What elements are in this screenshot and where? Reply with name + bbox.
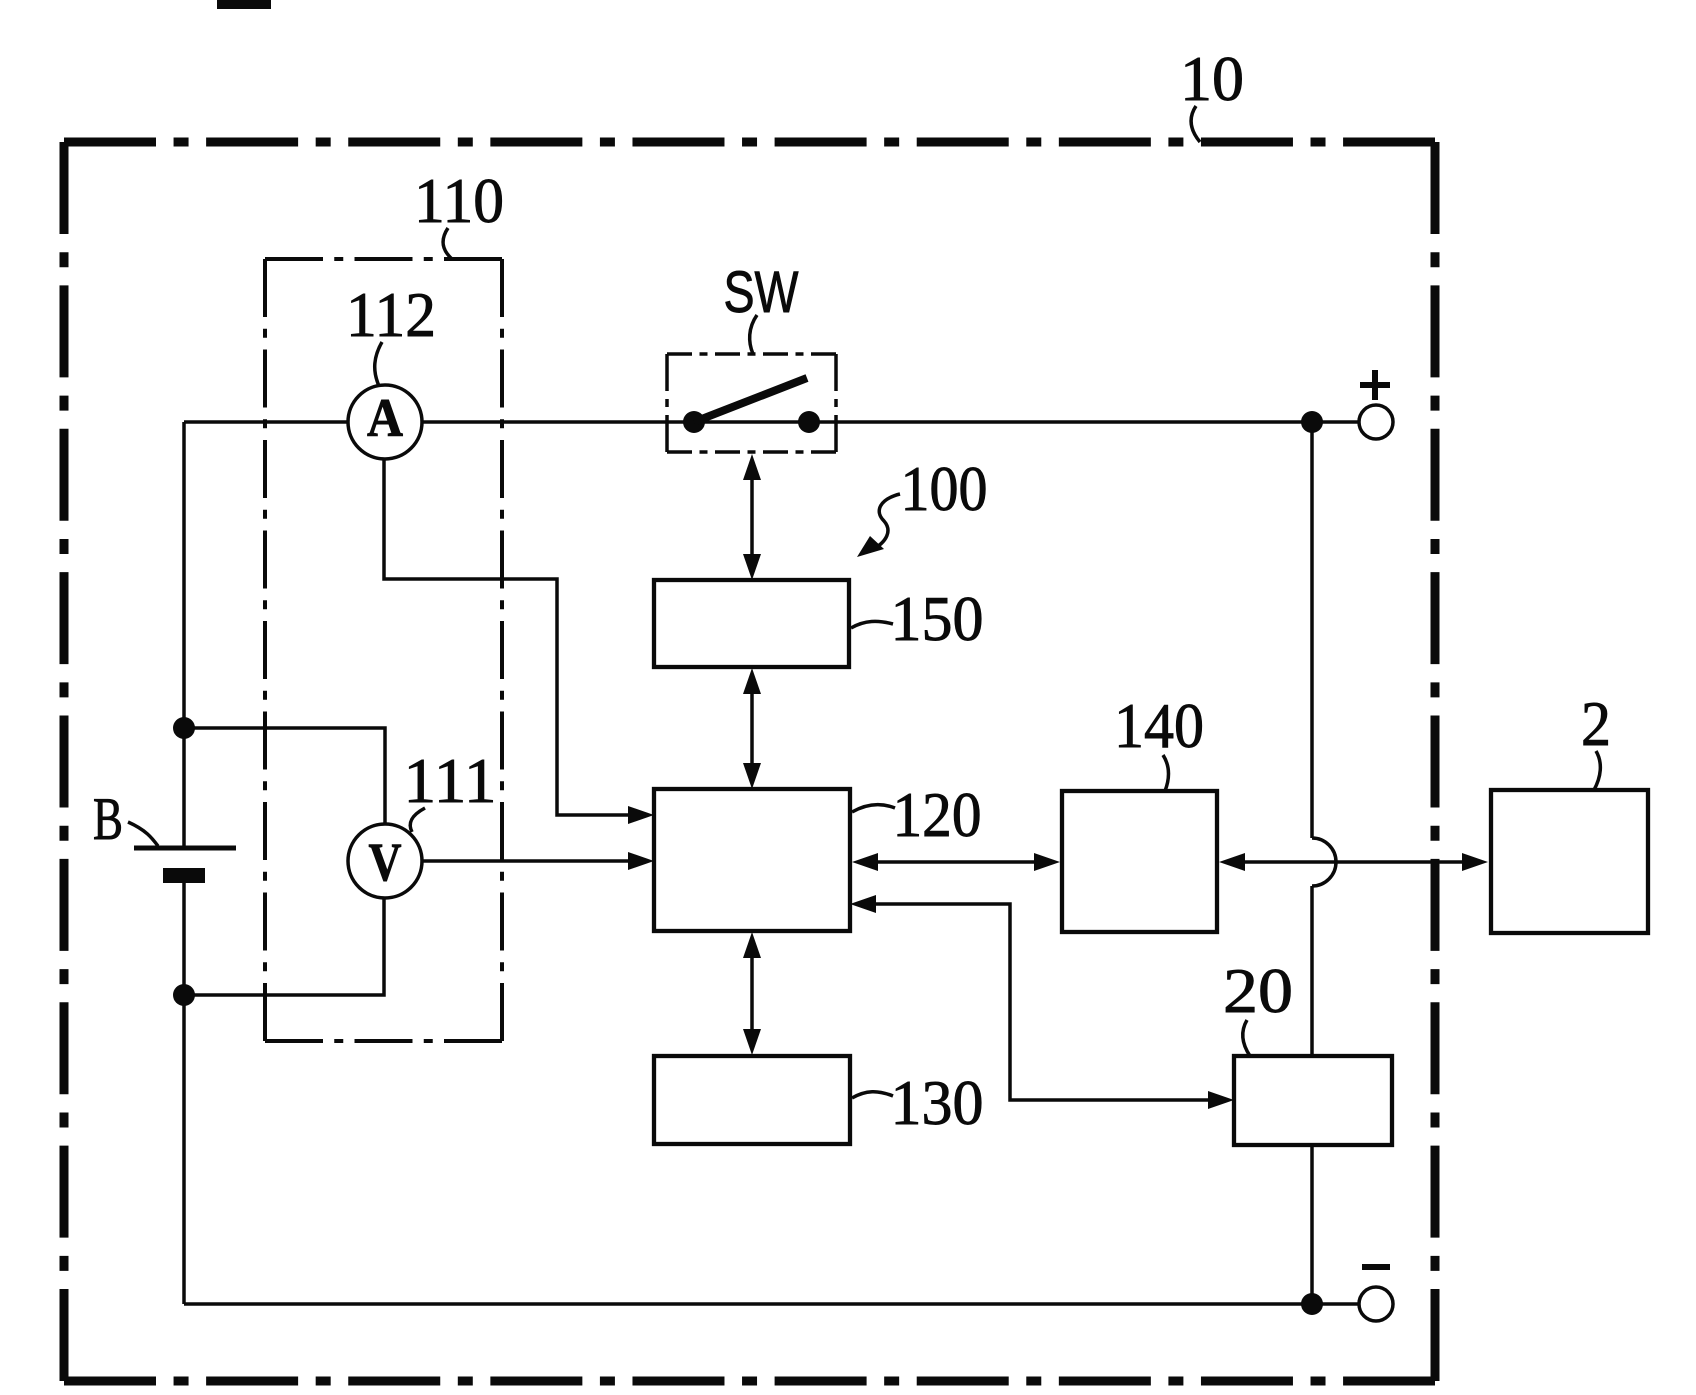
wire: bus middle segment into block 20 [1310,886,1314,1056]
leader for label 112 [375,342,382,386]
leader for label 140 [1163,755,1169,791]
wire: battery top tap to voltmeter [184,728,385,825]
node: battery bottom junction dot [173,984,195,1006]
svg-text:150: 150 [891,583,984,654]
ammeter 112 [348,385,422,459]
wire: controller 120 to block 20 L-path [876,904,1210,1100]
arrowhead into block 20 [1208,1091,1234,1109]
figure number crop mark [217,0,271,9]
wire: top horizontal into ammeter [184,420,349,424]
leader for label 130 [852,1092,893,1098]
wire: left vertical (battery top branch) [182,422,186,846]
leader arrow for 100 [870,494,900,551]
svg-text:100: 100 [901,453,988,524]
voltmeter 111 [348,824,422,898]
svg-text:110: 110 [414,165,504,236]
minus terminal circle [1359,1287,1393,1321]
leader for label B [128,822,158,846]
svg-text:V: V [369,832,402,892]
svg-text:120: 120 [893,779,982,850]
leader for label 10 [1191,106,1200,142]
block 120 [654,789,850,931]
block 150 [654,580,849,667]
switch left contact dot [683,411,705,433]
wire: bus hop over 140-2 arrow [1312,838,1336,886]
plus terminal circle [1359,405,1393,439]
svg-text:SW: SW [724,260,799,325]
node: junction dot at minus rail [1301,1293,1323,1315]
svg-text:20: 20 [1223,955,1293,1026]
leader for label SW [750,315,757,354]
leader for label 150 [851,621,893,628]
svg-text:111: 111 [404,745,497,816]
wire: bottom horizontal to minus node [184,1302,1359,1306]
leader for label 111 [410,808,425,832]
wire through switch box [667,420,836,424]
wire: ammeter output to controller 120 [384,459,630,815]
svg-text:A: A [367,388,403,448]
battery B: bottom short thick plate [163,868,205,883]
wire: plus-minus bus upper segment [1310,422,1314,838]
leader for label 120 [852,805,895,812]
wire: switch to plus node [809,420,1359,424]
arrowhead into 120 right side [850,895,876,913]
double arrow SW-150 [750,478,754,558]
block 130 [654,1056,850,1144]
svg-text:10: 10 [1180,43,1244,114]
svg-text:140: 140 [1114,690,1204,761]
arrowhead into 120 (ammeter signal) [628,806,654,824]
wire: left vertical (battery bottom branch) [182,880,186,1304]
double arrow 120-130 [750,956,754,1032]
svg-text:130: 130 [891,1067,984,1138]
leader for label 2 [1594,751,1600,790]
node: battery top junction dot [173,717,195,739]
svg-text:2: 2 [1581,688,1611,759]
double arrow 150-120 [750,692,754,766]
block 20 [1234,1056,1392,1145]
sensing unit box 110 (dash-dot) [265,259,502,1041]
switch lever [694,378,807,422]
arrowhead into 120 (voltmeter signal) [628,852,654,870]
wire: ammeter to switch [421,420,694,424]
double arrow 120-140 [876,860,1036,864]
double arrow 140-2 [1243,860,1464,864]
switch right contact dot [798,411,820,433]
leader for label 110 [443,228,452,259]
wire: battery bottom tap to voltmeter [184,897,384,995]
wire: bus lower segment from block 20 to minus node [1310,1145,1314,1304]
minus sign [1362,1264,1390,1270]
wire: voltmeter output to controller 120 [421,859,630,863]
leader for label 20 [1243,1020,1250,1056]
enclosure box 10 (dash-dot border) [64,142,1435,1381]
block 140 [1062,791,1217,932]
block 2 (external) [1491,790,1648,933]
svg-text:112: 112 [346,279,436,350]
plus sign [1360,370,1390,400]
svg-text:B: B [93,786,123,852]
node: junction dot at plus rail [1301,411,1323,433]
battery B: top long plate [134,846,236,851]
switch SW dashed box [667,354,836,452]
